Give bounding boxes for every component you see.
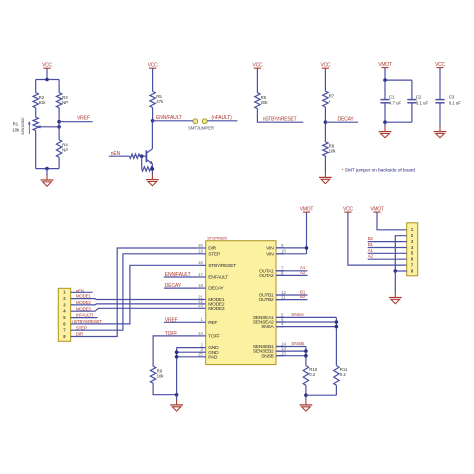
svg-text:10k: 10k [329,148,337,153]
connector J2 body [407,223,418,276]
svg-text:R7: R7 [329,93,335,98]
node emitter junction [151,167,155,171]
wire MODE2 [71,304,198,305]
svg-text:PAD: PAD [208,354,218,360]
wire base node lead [140,155,142,157]
svg-text:STEP: STEP [208,251,220,257]
node VIN junction [305,246,309,250]
svg-text:C1: C1 [389,94,395,99]
node ENN/FAULT [151,119,155,123]
node VREF junction [57,120,61,124]
potentiometer R1 [33,117,38,130]
node SNSA j2 [335,325,339,329]
svg-text:10k: 10k [157,374,165,379]
wire left branch lower [35,131,37,169]
pin 19 STEP (left) [198,249,220,258]
pin 9 VIN (right) [266,243,284,252]
svg-text:ENN/FAULT: ENN/FAULT [156,115,182,121]
wire GND bus vertical [176,348,178,395]
ground (fault circuit) [146,174,159,185]
resistor R7 [323,91,328,107]
wire J2 pin6 [368,258,407,260]
power VCC (J2) [343,207,353,213]
wire GND pin 2 [177,347,198,349]
wire SENSEA2 net [276,321,336,323]
pin 3 GND (left) [198,347,219,356]
node cap bottom junction [383,120,387,124]
svg-text:* SMT jumper on backside of bo: * SMT jumper on backside of board [342,167,416,173]
SMT jumper pad 2 [202,119,207,124]
wire GND rail stub [176,395,178,400]
wire J2 pin5 [368,252,407,254]
wire emitter [151,164,153,175]
wire R7 to node [324,107,326,122]
svg-text:91k: 91k [39,100,47,105]
svg-text:NP: NP [62,100,68,105]
svg-text:REF: REF [208,320,217,326]
pin 14 SENSEB1 (right) [253,341,287,350]
ground (logic) [170,400,183,411]
node DECAY [324,120,328,124]
wire DECAY net [164,287,198,289]
pin 24 TOFF (left) [198,331,220,340]
node base junction [140,154,144,158]
wire SNSB bus vertical [305,347,307,366]
svg-text:25: 25 [198,352,203,357]
svg-text:17: 17 [198,272,203,277]
svg-text:B1: B1 [368,242,374,247]
wire R9 to rail [153,383,177,395]
wire R1 wiper [39,126,59,128]
svg-text:64W103KC: 64W103KC [21,117,25,135]
power VCC (VREF divider) [42,63,52,69]
pin 10 VIN (right) [266,249,286,258]
svg-text:MODE1: MODE1 [76,294,92,299]
resistor R12 base [130,154,140,158]
op-amp U1 STSPIN820 body [206,241,276,365]
svg-text:nSTBY/nRESET: nSTBY/nRESET [72,319,102,324]
resistor R2 [33,93,38,108]
wire caps ground stub [384,122,386,126]
power VMOT (J2) [370,207,384,213]
node GND bus j1 [175,350,179,354]
wire collector riser [151,121,153,149]
svg-text:A2: A2 [300,270,306,275]
wire C1 bottom lead [384,103,386,122]
svg-text:VREF: VREF [77,116,90,122]
wire TOFF net [153,336,198,366]
svg-text:VIN: VIN [266,251,274,257]
wire OUTA1 net [276,270,308,272]
wire J2 pin8 gnd [395,270,406,272]
svg-text:4.7 uF: 4.7 uF [389,101,402,106]
wire sense rail [306,394,337,396]
wire R5 to node [152,108,154,121]
ground (decay divider) [319,172,332,183]
svg-text:DIR: DIR [76,332,84,337]
wire J2 ground stub [394,271,396,293]
wire MODE1 [71,298,198,301]
svg-text:STSPIN820: STSPIN820 [207,236,228,241]
svg-text:0.2: 0.2 [340,372,347,377]
pin 22 MODE2 (left) [198,299,225,308]
pin 25 PAD (left) [198,352,218,361]
pin 5 SENSEA1 (right) [253,312,284,321]
power VMOT (caps) [378,62,392,68]
power VCC (decay divider) [320,63,330,69]
transistor Q1 [146,149,153,164]
svg-text:0.1 uF: 0.1 uF [449,101,462,106]
svg-text:*: * [329,99,331,104]
node bottom rail junction [45,167,49,171]
node cap top junction [383,78,387,82]
svg-text:VIN: VIN [266,245,274,251]
pin 18 DECAY (left) [198,283,225,292]
wire MODE3 [71,308,198,311]
resistor R8 [323,142,328,156]
wire SNSA pin net [276,326,336,328]
pin 12 OUTB1 (right) [259,290,287,299]
wire bottom rail [36,168,59,170]
svg-text:STEP: STEP [76,325,87,330]
wire ENFAULT net [164,276,198,278]
wire right branch upper [58,80,60,93]
node SNSB j2 [304,354,308,358]
wire C2 top lead [411,80,413,100]
svg-text:20k: 20k [261,100,269,105]
pin 16 STBY/RESET (left) [198,260,237,269]
wire GND pin 3 [177,351,198,353]
wire VIN pin10 [276,253,307,255]
node wiper junction [57,125,61,129]
svg-text:23: 23 [198,303,203,308]
ground (VMOT caps) [379,126,392,137]
connector J1 body [58,288,70,341]
wire sense ground stub [305,395,307,400]
pin 21 MODE1 (left) [198,294,225,303]
svg-text:DIR: DIR [208,246,216,252]
wire DIR [71,248,198,337]
ground (J2) [389,292,402,303]
wire nEN [109,155,130,157]
svg-text:10k: 10k [12,127,20,132]
wire OUTA2 net [276,274,308,276]
wire SNSB pin net [276,355,306,357]
svg-text:SNSA: SNSA [261,324,274,330]
wire nFAULT stub [71,317,98,319]
wire C3 top lead [439,68,441,100]
svg-text:0.2: 0.2 [309,372,316,377]
svg-text:DECAY: DECAY [208,286,224,292]
wire right branch bottom [58,157,60,168]
svg-text:(nFAULT): (nFAULT) [76,313,94,318]
svg-text:47k: 47k [156,99,164,104]
node GND bus j2 [175,355,179,359]
svg-text:MODE3: MODE3 [208,306,225,312]
wire VMOT stub [384,68,386,80]
wire PAD pin [177,356,198,358]
wire SENSEB2 net [276,350,306,352]
svg-text:C2: C2 [416,94,422,99]
wire net ENN/FAULT [153,120,193,122]
pin 6 SENSEA2 (right) [253,317,284,326]
wire SNSA bus vertical [335,317,337,365]
SMT jumper pad 1 [193,119,198,124]
wire cap top rail [385,79,412,81]
svg-text:ENFAULT: ENFAULT [208,275,228,281]
wire VIN pin9 [276,247,307,249]
svg-text:10: 10 [281,249,286,254]
wire base lead [142,155,147,157]
svg-text:C3: C3 [449,94,455,99]
node SNSB j1 [304,349,308,353]
wire R10 to rail [305,385,307,395]
svg-text:OUTA2: OUTA2 [259,273,274,279]
svg-text:20: 20 [198,243,203,248]
wire R8 to ground [324,156,326,172]
capacitor C3 [435,99,444,101]
ground (sense) [300,400,313,411]
svg-text:19: 19 [198,249,203,254]
wire VMOT to J2 pin1 [377,212,407,229]
node J2 gnd junction [394,269,398,273]
wire pulldown drop [141,156,143,169]
wire SENSEA1 net [276,316,336,318]
wire C3 bottom lead [439,103,441,127]
svg-text:SNSB: SNSB [261,353,273,359]
wire ground stub [46,169,48,175]
svg-text:SMTJUMPER: SMTJUMPER [188,126,214,131]
wire top rail [36,79,59,81]
wire net VREF [59,121,93,123]
trim arrow of R1 [28,123,30,134]
pin 13 SENSEB2 (right) [253,346,287,355]
power VMOT (VIN) [300,207,314,213]
wire VREF net [164,321,198,323]
svg-text:0.1 uF: 0.1 uF [416,101,429,106]
svg-text:18: 18 [198,283,203,288]
capacitor C1 [380,99,389,101]
svg-text:B2: B2 [368,236,374,241]
power VCC (fault pullup) [148,63,158,69]
wire cap bottom rail [385,121,412,123]
resistor R6 [255,93,260,109]
pin 15 SNSB (right) [261,351,286,360]
resistor R13 pulldown [142,167,153,171]
resistor R11 [334,366,339,386]
ground (C3) [434,126,447,137]
wire VMOT drop [306,212,308,253]
node top rail junction [45,78,49,82]
wire J2 pin2 gnd [395,236,406,271]
svg-text:MODE3: MODE3 [76,306,92,311]
wire nEN stub [71,291,93,293]
power VCC (stby pullup) [252,63,262,69]
node sense rail junction [304,393,308,397]
pin 17 ENFAULT (left) [198,272,229,281]
wire J2 pin4 [368,247,407,249]
pin 7 OUTA1 (right) [259,266,284,275]
svg-text:DECAY: DECAY [338,116,355,122]
ground (VREF divider) [41,175,54,186]
resistor R4 [56,140,61,158]
wire VCC to J2 pin7 [348,212,407,265]
svg-text:NP: NP [62,147,68,152]
wire left branch upper [35,80,37,93]
pin 20 DIR (left) [198,243,217,252]
svg-text:nSTBY/nRESET: nSTBY/nRESET [263,117,297,123]
wire VCC stub [46,69,48,80]
pin 4 SNSA (right) [261,322,284,331]
wire nSTBY/nRESET [71,265,198,324]
svg-text:(nFAULT): (nFAULT) [212,115,233,121]
node GND rail junction [175,393,179,397]
wire left branch mid [35,108,37,117]
pin 2 GND (left) [198,343,219,352]
wire C1 top lead [384,80,386,100]
wire R11 to rail [335,385,337,395]
svg-text:OUTB2: OUTB2 [259,297,274,303]
capacitor C2 [407,99,416,101]
resistor R9 [150,366,155,383]
power VCC (C3) [435,62,445,68]
pin 11 OUTB2 (right) [259,295,287,304]
svg-text:STBY/RESET: STBY/RESET [208,263,236,269]
wire node to R8 [324,122,326,142]
svg-text:16: 16 [198,260,203,265]
wire net DECAY [325,121,358,123]
wire VCC stub 2 [152,69,154,92]
wire J2 pin3 [368,241,407,243]
wire C2 bottom lead [411,103,413,122]
svg-text:MODE2: MODE2 [76,300,92,305]
wire VCC stub 3 [256,69,258,93]
pin 1 REF (left) [198,317,218,326]
svg-text:A1: A1 [368,248,374,253]
wire STEP [71,254,198,330]
resistor R3 [56,93,61,108]
wire net nFAULT stub [207,120,237,122]
wire right branch mid [58,108,60,140]
wire VCC stub 4 [324,69,326,92]
wire SENSEB1 net [276,346,306,348]
svg-text:24: 24 [198,331,203,336]
svg-text:R1: R1 [13,122,19,127]
pin 8 OUTA2 (right) [259,270,284,279]
resistor R5 [150,91,155,107]
wire OUTB1 net [276,294,308,296]
svg-text:A2: A2 [368,254,374,259]
node SNSA j1 [335,320,339,324]
pin 23 MODE3 (left) [198,303,225,312]
wire net nSTBY/nRESET [257,109,303,123]
resistor R10 [303,366,308,386]
svg-text:B2: B2 [300,294,306,299]
svg-text:TOFF: TOFF [208,333,220,339]
wire OUTB2 net [276,299,308,301]
